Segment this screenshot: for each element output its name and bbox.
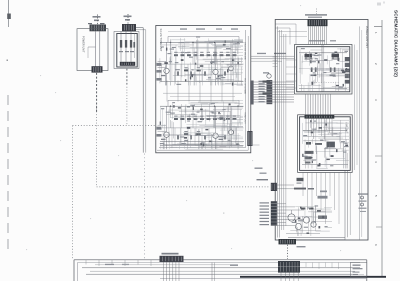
right channel mid bus wire — [162, 127, 244, 129]
wire — [197, 110, 223, 112]
wire — [222, 41, 243, 43]
wire — [171, 121, 173, 148]
value label — [176, 84, 181, 85]
tone board bottom stub wire — [251, 144, 260, 146]
capacitor — [193, 107, 194, 110]
wire — [187, 116, 203, 118]
value label — [317, 54, 321, 55]
dashed wire vertical mid — [96, 103, 98, 187]
wire — [335, 82, 337, 91]
amp A output transistor Q8 — [345, 80, 350, 84]
resistor — [319, 127, 322, 129]
ribbon wire — [309, 26, 311, 44]
emitter resistor — [204, 71, 206, 75]
value label — [180, 42, 185, 43]
value label — [303, 135, 307, 136]
wire — [221, 126, 243, 128]
wire — [195, 117, 197, 137]
tone board inner rail right — [245, 30, 247, 148]
wire — [232, 122, 243, 124]
resistor — [187, 127, 190, 129]
ribbon wire — [327, 94, 329, 115]
wire — [199, 125, 227, 127]
resistor — [336, 85, 339, 86]
capacitor — [195, 63, 197, 65]
wire — [163, 124, 165, 149]
value label — [191, 114, 195, 115]
wire — [170, 56, 172, 64]
headphone jack block — [278, 261, 300, 273]
jack board outline top — [74, 259, 367, 261]
wire — [213, 107, 215, 112]
value label — [169, 61, 172, 62]
wire — [307, 218, 309, 232]
wire — [194, 48, 196, 64]
wire — [210, 134, 212, 148]
right channel transistor Q3 — [229, 130, 234, 135]
capacitor — [338, 58, 340, 61]
emitter resistor — [224, 135, 226, 139]
tone board top band labels — [180, 28, 187, 29]
wire — [170, 120, 172, 128]
wire — [225, 63, 243, 65]
value label — [193, 74, 196, 75]
ribbon wire — [321, 26, 323, 44]
svg-text:POWER AMP UNIT: POWER AMP UNIT — [365, 26, 368, 48]
capacitor — [203, 144, 204, 147]
connector CN303 — [247, 131, 252, 146]
wire — [317, 210, 332, 212]
emitter bus wires — [288, 236, 345, 238]
resistor — [317, 165, 319, 167]
value label — [181, 143, 185, 144]
value label — [233, 43, 237, 44]
wire — [344, 127, 346, 144]
wire — [212, 44, 243, 46]
wire — [195, 74, 197, 80]
amp A resistors left — [311, 68, 313, 72]
wire — [231, 99, 243, 101]
wire — [316, 60, 328, 62]
amp B bottom rail — [302, 164, 348, 166]
wire — [219, 54, 221, 80]
wire — [336, 122, 349, 124]
wire — [170, 39, 172, 62]
right channel supply bus wire — [160, 105, 244, 107]
wire — [323, 126, 349, 128]
wire — [201, 144, 203, 149]
wire — [192, 56, 194, 64]
ribbon wire — [319, 26, 321, 44]
wire — [211, 66, 213, 85]
left channel feedback loop wire — [168, 37, 239, 43]
right channel coupling capacitor 2 — [197, 133, 201, 135]
wire — [217, 59, 219, 81]
wire — [160, 143, 162, 149]
connector CN603 winding bar — [120, 62, 135, 66]
jack board top stubs — [85, 260, 87, 265]
power transistor Q13 — [303, 217, 309, 223]
wire — [304, 208, 306, 215]
emitter resistor — [177, 135, 179, 139]
wire — [163, 142, 165, 149]
wire — [314, 206, 316, 223]
capacitor — [300, 207, 302, 209]
value label — [324, 226, 327, 227]
stray speckle — [223, 213, 224, 214]
tone board inner rail bottom 2 — [157, 149, 248, 151]
amp B lower components — [305, 151, 314, 154]
wire — [336, 135, 349, 137]
wire — [195, 40, 197, 49]
wire — [239, 118, 241, 123]
amp board left rail wires — [277, 26, 279, 237]
wire — [227, 106, 229, 112]
value label — [210, 111, 213, 112]
value label — [197, 112, 200, 113]
value label — [216, 78, 221, 79]
power transistor Q14 — [311, 222, 316, 227]
capacitor — [200, 143, 202, 145]
wire — [345, 150, 347, 168]
wire — [337, 48, 349, 50]
wire — [308, 211, 326, 213]
wire — [217, 72, 219, 80]
wire — [184, 72, 186, 77]
resistor — [315, 52, 318, 54]
wire — [223, 107, 243, 109]
wire — [231, 106, 243, 108]
capacitor — [322, 216, 324, 219]
wire — [192, 120, 194, 128]
value label — [221, 61, 224, 62]
wire — [299, 48, 301, 73]
amp block B inner box — [300, 117, 351, 171]
wire — [201, 64, 203, 82]
wire — [214, 39, 243, 41]
ribbon wire — [312, 94, 314, 115]
wire — [211, 60, 241, 62]
wire — [330, 132, 349, 134]
wire — [311, 139, 313, 144]
wire — [314, 211, 332, 213]
wire — [182, 45, 184, 54]
value label — [180, 136, 184, 137]
left channel transistor Q2 — [213, 69, 218, 74]
wire — [308, 131, 310, 147]
right channel input wires — [158, 124, 167, 126]
wire — [346, 153, 348, 169]
capacitor — [336, 149, 338, 152]
wire — [315, 67, 344, 69]
wire — [190, 129, 192, 138]
wire — [222, 101, 224, 124]
dashed wire horizontal long — [97, 186, 269, 188]
emitter resistor — [190, 71, 192, 75]
wire — [312, 122, 344, 124]
wire — [214, 120, 216, 128]
capacitor — [217, 75, 219, 77]
wire — [175, 45, 177, 76]
svg-text:2SC1815 2SC945: 2SC1815 2SC945 — [244, 42, 246, 60]
wire — [205, 61, 221, 63]
wire — [236, 61, 243, 63]
wire — [319, 75, 339, 77]
wire — [213, 108, 242, 110]
wire — [237, 58, 239, 81]
wire — [316, 230, 330, 232]
wire — [240, 57, 242, 63]
wire — [186, 124, 214, 126]
right ruler tick 4 — [375, 155, 382, 157]
value label — [223, 136, 226, 137]
wire — [219, 134, 241, 136]
wire — [236, 47, 238, 53]
wire — [201, 109, 203, 121]
wire — [185, 41, 242, 43]
wire — [169, 81, 171, 85]
wire — [185, 73, 207, 75]
wire — [240, 66, 242, 85]
connector CN802 bar — [305, 115, 335, 119]
jack board left edge — [73, 260, 75, 281]
value label — [175, 62, 179, 63]
resistor — [306, 232, 309, 233]
value label — [313, 221, 316, 222]
amp A center wires — [321, 45, 323, 92]
wire — [223, 80, 242, 82]
output rail verticals — [344, 171, 346, 240]
wire — [304, 131, 328, 133]
wire — [170, 146, 177, 148]
ribbon wire — [325, 94, 327, 115]
ribbon wire — [254, 81, 295, 83]
wire — [326, 55, 328, 64]
wire — [208, 64, 210, 82]
left margin fold dashed line — [7, 95, 9, 252]
headphone jack drops — [280, 273, 282, 281]
wire — [227, 128, 229, 145]
wire — [214, 56, 216, 64]
wire — [194, 54, 196, 77]
ribbon pin labels — [259, 81, 265, 82]
jack board wire pair — [211, 263, 213, 281]
value label — [315, 205, 319, 206]
tone board bottom bus 2 — [163, 144, 240, 146]
ribbon wire — [330, 94, 332, 115]
fuse label F601 — [93, 16, 101, 18]
wire — [172, 143, 207, 145]
wire — [338, 75, 349, 77]
wire — [198, 101, 238, 103]
wire — [222, 83, 243, 85]
wire — [178, 46, 222, 48]
power TR label row — [294, 188, 306, 190]
wire — [185, 106, 187, 123]
wire — [233, 125, 235, 140]
wire — [312, 60, 333, 62]
resistor — [298, 217, 301, 219]
right channel transistor Q1 — [164, 132, 169, 137]
wire — [324, 148, 343, 150]
capacitor — [232, 83, 234, 86]
left margin registration smudge — [7, 14, 11, 20]
power amp board outline — [275, 20, 368, 241]
wire — [193, 72, 195, 85]
wire — [210, 71, 212, 86]
wire — [203, 58, 243, 60]
amp B junction row — [303, 130, 347, 132]
value label — [333, 76, 336, 77]
rectifier unit outer box — [114, 32, 139, 69]
wire — [311, 221, 332, 223]
wire — [200, 103, 208, 105]
capacitor — [196, 133, 197, 135]
value label — [161, 46, 164, 47]
wire — [205, 114, 240, 116]
value label — [312, 129, 316, 130]
wire — [168, 109, 208, 111]
wire — [232, 129, 243, 131]
wire — [330, 157, 345, 159]
wire — [190, 137, 192, 148]
corner speckles — [377, 3, 381, 6]
value label — [191, 69, 194, 70]
wire — [211, 136, 213, 149]
value label — [218, 113, 221, 114]
ribbon wire — [325, 26, 327, 44]
wire — [303, 160, 313, 162]
wire — [342, 142, 344, 157]
right ruler tick 1 — [374, 26, 382, 28]
wire — [218, 79, 220, 85]
wire — [323, 81, 325, 91]
value label — [210, 103, 215, 104]
wire — [219, 145, 243, 147]
CN801 labels — [305, 14, 327, 15]
right channel coupling capacitor — [184, 133, 188, 135]
wire — [338, 68, 340, 91]
wire — [222, 69, 224, 85]
dashed wire vertical mid dark — [96, 73, 98, 112]
capacitor — [343, 84, 344, 87]
power transformer unit box — [77, 29, 108, 71]
wire — [234, 38, 243, 40]
wire — [235, 127, 237, 145]
CN705 pin wires — [277, 203, 286, 205]
wire — [339, 132, 341, 142]
value label — [301, 48, 305, 49]
wire — [204, 41, 223, 43]
wire — [165, 66, 167, 86]
emitter resistor — [224, 71, 226, 75]
wire — [177, 52, 198, 54]
wire — [205, 136, 243, 138]
left channel supply bus wire — [160, 41, 244, 43]
svg-text:SCHEMATIC DIAGRAMS (2/2): SCHEMATIC DIAGRAMS (2/2) — [393, 10, 399, 77]
value label — [172, 102, 175, 103]
wire — [170, 39, 172, 44]
wire — [170, 42, 172, 54]
value label — [323, 72, 326, 73]
value label — [226, 48, 231, 49]
wire — [221, 67, 232, 69]
wire secondary b — [125, 31, 127, 62]
mains lead dotted wire — [97, 15, 99, 25]
wire — [190, 73, 241, 75]
wire — [237, 42, 239, 54]
wire — [333, 119, 349, 121]
ribbon wire — [315, 26, 317, 44]
value label — [170, 113, 175, 114]
CN803 dotted lead — [287, 245, 289, 259]
wire — [320, 63, 322, 70]
wire — [222, 51, 243, 53]
wire — [206, 79, 234, 81]
value label — [313, 121, 316, 122]
wire — [331, 73, 349, 75]
resistor — [334, 52, 337, 54]
wire — [174, 64, 176, 82]
ribbon wire — [322, 94, 324, 115]
wire — [223, 49, 243, 51]
wire — [215, 56, 217, 63]
fuse label F602 — [124, 16, 132, 18]
wire — [184, 38, 186, 68]
value label — [196, 36, 200, 37]
value label — [303, 156, 307, 157]
wire — [228, 124, 230, 149]
ribbon wire — [254, 89, 295, 91]
wire — [161, 108, 163, 128]
dashed wire vertical left — [72, 126, 74, 260]
wire — [294, 215, 312, 217]
wire — [205, 109, 207, 125]
supply wire dotted continuation — [143, 154, 145, 260]
amp right side rails — [354, 45, 356, 171]
wire — [320, 73, 322, 83]
wire — [310, 57, 316, 59]
CN601 top labels — [88, 23, 92, 24]
tone board outline — [156, 26, 251, 153]
wire — [199, 70, 201, 83]
wire — [229, 111, 231, 131]
wire — [173, 122, 175, 138]
wire — [311, 74, 336, 76]
amp A output transistor Q6 — [345, 63, 350, 67]
ribbon wire — [311, 26, 313, 44]
jack board mid stubs — [305, 263, 307, 268]
value label — [175, 69, 180, 70]
wire — [227, 64, 243, 66]
wire — [221, 64, 223, 82]
wire — [232, 72, 243, 74]
wire — [208, 128, 210, 145]
wire — [301, 56, 303, 63]
ribbon wire — [313, 26, 315, 44]
wire — [233, 130, 235, 136]
wire — [209, 103, 211, 121]
jack board trace shadow — [160, 278, 366, 280]
wire — [297, 207, 299, 218]
relay lead wires — [163, 262, 165, 281]
wire — [159, 58, 161, 83]
wire — [309, 52, 311, 66]
value label — [333, 133, 337, 134]
wire — [192, 42, 209, 44]
wire — [175, 56, 177, 84]
resistor — [223, 44, 226, 46]
